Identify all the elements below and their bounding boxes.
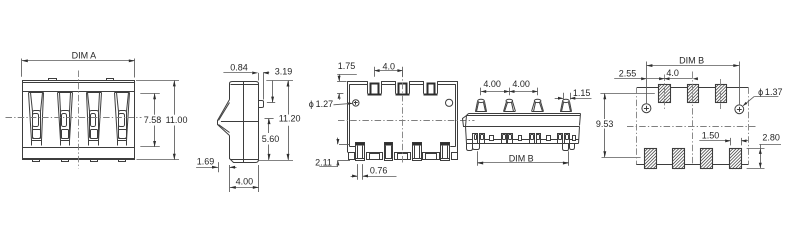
dimension 9.53 [595, 93, 655, 157]
view3 vertical centerline [402, 71, 404, 164]
svg-text:5.60: 5.60 [262, 134, 280, 144]
view5 pad1 centerline [664, 75, 666, 110]
leader and label phi1.37 [742, 87, 782, 107]
dimension 0.84 [223, 62, 269, 99]
dimension 0.76 [351, 164, 397, 180]
view1 contact 2 [61, 111, 70, 139]
dimension DIM B view5 [646, 55, 739, 104]
view5 top pad 1 [658, 84, 670, 102]
view5 bottom pad 1 [644, 149, 656, 170]
view3 bottom pin 3 [412, 143, 421, 161]
view5 right body centerline [748, 87, 750, 164]
svg-text:4.00: 4.00 [483, 79, 501, 89]
view5 bottom pad 2 [672, 149, 684, 170]
svg-text:1.50: 1.50 [702, 131, 720, 141]
view5 hole 1 [642, 104, 651, 113]
svg-text:2.80: 2.80 [762, 132, 780, 142]
view1 lower shoulder line [23, 147, 135, 149]
view1 contact slot 3 [87, 93, 102, 146]
view4 contact row joining line [467, 139, 579, 141]
svg-text:11.00: 11.00 [166, 115, 188, 125]
view3 bottom web 5 [452, 153, 458, 160]
svg-text:4.0: 4.0 [383, 61, 396, 71]
dimension 1.15 [555, 88, 592, 100]
svg-text:1.75: 1.75 [338, 61, 356, 71]
view4 left mounting foot front [467, 144, 473, 151]
view3 bottom web 4 [423, 153, 440, 160]
dimension 4.0 top [374, 61, 402, 76]
dimension 4.00 depth [230, 165, 259, 192]
svg-text:4.00: 4.00 [236, 177, 254, 187]
view4 small lug 1 [490, 136, 494, 141]
view2 internal face line [243, 81, 245, 162]
view1 bottom solder foot 3 [91, 160, 98, 162]
view3 inner wall lines [350, 84, 456, 147]
view5 left body centerline [636, 87, 638, 164]
view4 left end lug [463, 116, 467, 127]
svg-text:DIM B: DIM B [509, 154, 534, 164]
view4 right mounting foot front [563, 144, 569, 151]
view1 vertical centerline [78, 71, 80, 169]
view3 bottom web 1 [349, 153, 355, 160]
view1 inner top wall line [23, 91, 135, 93]
svg-text:0.84: 0.84 [230, 62, 248, 72]
svg-text:4.0: 4.0 [666, 68, 679, 78]
dimension 4.0 footprint [647, 68, 698, 80]
svg-text:ϕ 1.27: ϕ 1.27 [309, 99, 333, 109]
svg-text:7.58: 7.58 [144, 115, 162, 125]
view2 side view body outline [230, 82, 259, 163]
svg-text:3.19: 3.19 [275, 67, 293, 77]
svg-text:DIM A: DIM A [72, 51, 97, 61]
view4 small lug 2 [519, 136, 522, 141]
dimension DIM A [22, 51, 135, 78]
dimension DIM B view4 [477, 151, 569, 166]
dimension 11.20 [258, 81, 300, 161]
view3 hole phi1.27 [353, 100, 359, 106]
svg-text:4.00: 4.00 [512, 79, 530, 89]
dimension 4.00 pitch left [481, 79, 538, 95]
view4 left mounting foot rear [473, 144, 480, 150]
view4 contact pair 2 [502, 134, 513, 144]
view1 front view body outline [23, 81, 136, 160]
dimension 1.75 [337, 61, 357, 100]
view1 bottom solder foot 1 [33, 160, 40, 162]
view4 small lug 3 [547, 136, 551, 141]
dimension 2.55 [614, 69, 646, 81]
view1 contact slot 1 [29, 93, 44, 146]
dimension 5.60 [262, 119, 280, 160]
view3 body outline [348, 81, 458, 152]
dimension 7.58 [140, 93, 161, 147]
view4 body plate [466, 114, 581, 144]
dimension 1.50 [699, 131, 748, 146]
view5 top pad 2 [688, 84, 699, 102]
dimension 3.19 [266, 67, 293, 103]
view4 contact pair 3 [530, 134, 541, 144]
view5 body outline top edge [637, 87, 748, 89]
svg-text:DIM B: DIM B [679, 55, 704, 65]
view3 top contact window 1 [368, 81, 382, 95]
svg-text:1.15: 1.15 [573, 88, 591, 98]
dimension 11.00 [136, 80, 187, 159]
view5 bottom pad 3 [700, 149, 712, 170]
view5 body outline bottom edge [636, 164, 748, 166]
dimension 1.69 [196, 156, 236, 172]
view5 pad3 centerline [720, 79, 722, 109]
view4 contact pair 4 [558, 134, 570, 144]
view4 contact pair 1 [473, 134, 485, 144]
view2 contact slot line [221, 121, 258, 123]
view1 contact 1 [33, 111, 41, 139]
view4 small lug 4 [573, 136, 576, 141]
view1 bottom solder foot 4 [119, 160, 126, 162]
view5 hole 2 [735, 105, 744, 114]
view3 bottom pin 1 [356, 143, 365, 161]
view4 contact post 4 [560, 99, 572, 111]
view1 contact 4 [119, 111, 127, 139]
view4 contact post 3 [532, 99, 544, 111]
svg-text:ϕ 1.37: ϕ 1.37 [758, 87, 782, 97]
view3 top contact window 3 [424, 81, 438, 95]
svg-text:2.11: 2.11 [315, 158, 332, 168]
view4 contact post 2 [504, 99, 516, 111]
view1 bottom solder foot 2 [62, 160, 69, 162]
view5 horizontal centerline [627, 126, 757, 128]
view1 horizontal centerline [6, 117, 142, 119]
view3 bottom pin 2 [384, 143, 393, 161]
view3 bottom web 2 [367, 153, 383, 160]
view2 inner top wall line [231, 84, 259, 86]
svg-text:11.20: 11.20 [279, 113, 301, 123]
dimension 2.80 [747, 132, 781, 168]
view1 contact slot 4 [115, 93, 130, 146]
dimension 2.11 [315, 138, 350, 168]
leader and label phi1.27 [309, 99, 353, 109]
view1 contact 3 [90, 111, 99, 139]
view3 top contact window 2 [396, 81, 410, 95]
svg-text:9.53: 9.53 [596, 119, 614, 129]
view3 horizontal centerline [338, 120, 475, 122]
svg-text:1.69: 1.69 [197, 156, 215, 166]
view1 bottom rib line [23, 158, 135, 160]
view2 latch wedge [218, 100, 230, 136]
view3 right pilot hole [446, 99, 453, 106]
view4 right mounting foot rear [570, 144, 575, 150]
view5 top pad 3 [716, 84, 727, 102]
view4 contact post 1 [475, 99, 487, 111]
view1 top mounting bosses [49, 79, 114, 81]
svg-text:0.76: 0.76 [370, 166, 388, 176]
view2 right contact tab [259, 101, 264, 108]
view3 bottom pin 4 [441, 143, 450, 161]
view3 bottom web 3 [395, 153, 411, 160]
view5 bottom pad 4 [730, 149, 742, 170]
view1 contact slot 2 [58, 93, 73, 146]
view5 pad2 centerline [692, 72, 694, 165]
view2 inner bottom wall line [231, 159, 259, 161]
svg-text:2.55: 2.55 [619, 69, 637, 79]
